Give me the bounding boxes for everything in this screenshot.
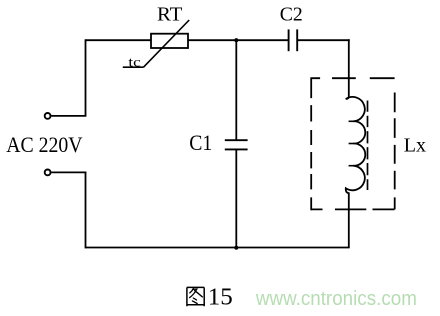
svg-text:tc: tc (128, 55, 140, 70)
svg-text:www.cntronics.com: www.cntronics.com (255, 288, 417, 310)
svg-text:C1: C1 (189, 130, 212, 155)
svg-text:C2: C2 (280, 3, 303, 25)
svg-text:AC 220V: AC 220V (6, 132, 82, 157)
svg-text:15: 15 (208, 284, 233, 311)
svg-text:RT: RT (157, 3, 183, 25)
svg-text:Lx: Lx (404, 135, 426, 157)
